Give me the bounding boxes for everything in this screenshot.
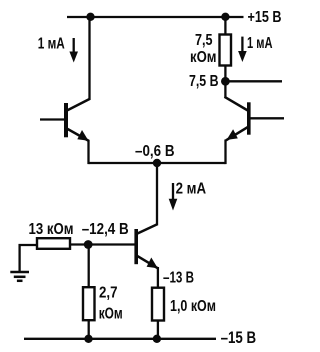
- node dot 7.5V: [221, 77, 230, 86]
- resistor R2 13k: [37, 238, 70, 249]
- wire 13k left lead: [19, 244, 38, 246]
- wire Q3 emitter vertical: [157, 267, 159, 289]
- svg-text:–13 В: –13 В: [163, 269, 194, 286]
- wire Q2 emitter vertical: [224, 140, 226, 165]
- wire right collector drop: [224, 81, 226, 98]
- node dot bottom-right: [153, 335, 161, 343]
- wire left collector drop: [88, 16, 90, 100]
- svg-text:+15 В: +15 В: [248, 9, 282, 26]
- wire R1 top lead: [224, 16, 226, 35]
- svg-text:кОм: кОм: [99, 306, 123, 323]
- wire base node to Q3: [70, 243, 135, 245]
- arrow 1mA right: [238, 37, 247, 62]
- svg-text:7,5: 7,5: [195, 32, 213, 49]
- arrow 1mA left: [69, 38, 78, 63]
- svg-text:кОм: кОм: [190, 49, 217, 66]
- svg-text:–0,6 В: –0,6 В: [135, 143, 175, 160]
- resistor R4 1.0k: [152, 288, 164, 321]
- wire R1 bottom lead: [224, 65, 226, 82]
- resistor R3 2.7k: [83, 287, 95, 320]
- svg-text:1,0 кОм: 1,0 кОм: [170, 298, 216, 315]
- transistor Q3: [135, 224, 158, 269]
- ground: [10, 272, 29, 281]
- arrow 2mA: [169, 183, 178, 211]
- svg-text:–12,4 В: –12,4 В: [82, 221, 129, 238]
- wire -15V bottom rail: [24, 338, 216, 340]
- svg-text:1 мА: 1 мА: [247, 35, 273, 52]
- wire +15V top rail: [67, 16, 244, 18]
- svg-text:1 мА: 1 мА: [38, 36, 65, 53]
- node dot top-left: [86, 13, 94, 21]
- wire tail current vertical: [156, 163, 158, 225]
- transistor Q1: [40, 99, 90, 141]
- wire node to R3 top: [88, 245, 90, 289]
- svg-text:2,7: 2,7: [99, 284, 118, 301]
- wire output node 7.5V: [225, 80, 282, 82]
- node dot emitter rail: [153, 159, 161, 167]
- transistor Q2: [225, 97, 285, 141]
- svg-text:2 мА: 2 мА: [176, 181, 207, 198]
- node dot base: [84, 240, 93, 249]
- svg-text:7,5 В: 7,5 В: [189, 73, 219, 90]
- svg-text:–15 В: –15 В: [221, 328, 257, 347]
- wire ground drop: [18, 244, 20, 271]
- wire R4 bottom to rail: [157, 320, 159, 341]
- wire emitter rail: [89, 162, 226, 164]
- wire Q1 emitter vertical: [87, 140, 89, 164]
- wire R3 bottom to rail: [88, 320, 90, 341]
- node dot bottom-left: [84, 335, 92, 343]
- resistor R1 7.5k: [220, 35, 232, 66]
- node dot top-right: [221, 13, 229, 21]
- svg-text:13 кОм: 13 кОм: [29, 221, 74, 238]
